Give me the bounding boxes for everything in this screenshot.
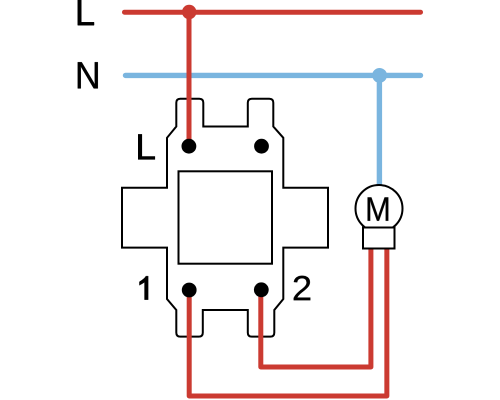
- motor label M: [368, 197, 389, 220]
- wire N bus (blue): [126, 73, 421, 78]
- wire L drop to terminal L: [187, 12, 192, 146]
- wire N drop to motor: [377, 75, 382, 188]
- switch rocker inner square: [179, 171, 273, 263]
- label L terminal: [138, 134, 155, 159]
- label terminal 1: [139, 276, 148, 300]
- motor terminal box: [363, 228, 395, 249]
- junction N bus: [372, 68, 387, 83]
- label L (line): [78, 0, 94, 25]
- label N (neutral): [78, 62, 98, 88]
- terminal dot 1: [182, 283, 197, 298]
- label terminal 2: [294, 276, 311, 301]
- motor M circle: [356, 185, 403, 232]
- wire terminal 1 to motor: [189, 240, 387, 396]
- terminal dot 2: [254, 282, 269, 297]
- junction L bus: [182, 5, 196, 19]
- wire L bus (red): [125, 10, 421, 15]
- terminal dot top-right: [254, 139, 269, 154]
- switch body outline S1: [122, 99, 328, 337]
- wire terminal 2 to motor: [261, 240, 371, 367]
- terminal dot L: [182, 139, 197, 154]
